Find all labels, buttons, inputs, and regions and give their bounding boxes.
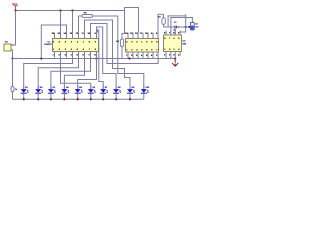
wire top link to IC2 pin12 xyxy=(125,8,139,33)
node bus D4 xyxy=(63,98,65,100)
node rail at x60 xyxy=(59,9,61,11)
node bus D9 xyxy=(129,98,131,100)
wire R4 bottom tick xyxy=(163,24,165,27)
LED D4 xyxy=(61,86,69,100)
wire junction to C2 xyxy=(186,26,191,28)
battery B1 xyxy=(4,44,13,51)
U1 pin numbers bottom outside xyxy=(53,54,97,57)
node bus D5 xyxy=(77,98,79,100)
wire rail to IC1 pin13 xyxy=(72,11,74,33)
capacitor C2 electrolytic xyxy=(190,22,194,30)
ic U3 555 xyxy=(164,31,182,59)
node VCC rail left xyxy=(14,9,16,11)
U3 pin names top inside xyxy=(164,38,180,40)
resistor R2 xyxy=(82,15,93,18)
wire R2 to LED10 feed xyxy=(93,16,144,89)
wire U1 pin9 to LED8 feed xyxy=(97,27,117,89)
LED D6 xyxy=(88,86,96,100)
wire U1 pin11 to LED9 feed xyxy=(85,20,131,89)
wire rail to IC1 pin15 xyxy=(60,11,62,33)
U1 pin names top inside xyxy=(53,41,97,44)
C2 plus mark xyxy=(188,26,190,28)
node bus D1 xyxy=(23,98,25,100)
node battery ground junction xyxy=(11,57,13,59)
wire carry stub to LED7 feed xyxy=(98,30,104,89)
LED D8 xyxy=(113,86,121,100)
LED D1 xyxy=(21,86,29,100)
node bus D8 xyxy=(115,98,117,100)
wire top link down to R3 xyxy=(122,8,125,40)
wire U1 pin6 to LED4 xyxy=(64,58,84,90)
U1 pin numbers top outside xyxy=(52,32,97,35)
U2 pin names top inside xyxy=(126,41,158,44)
wire U1 pin10 to IC2 clock link xyxy=(91,24,159,64)
wire timing loop xyxy=(168,16,186,27)
wire top-right rail xyxy=(158,13,164,15)
node C1 plus xyxy=(178,26,180,28)
ic U2 4011 xyxy=(126,33,159,59)
LED D2 xyxy=(35,86,43,100)
wire VCC drop to rail xyxy=(15,9,17,11)
wire rail corner to junction and IC3 pin5 xyxy=(180,14,186,35)
node rail at x72 xyxy=(71,9,73,11)
wire U1 pin4 to LED1 xyxy=(24,58,73,90)
wire bus down to resistor R1 xyxy=(12,59,14,87)
LED D10 xyxy=(141,86,149,100)
wire R3 bottom to ground bus xyxy=(121,47,123,59)
ic U1 CD4017 xyxy=(53,33,99,58)
U3 pin numbers bottom outside xyxy=(164,53,180,56)
LED D3 xyxy=(48,86,56,100)
wire U1 pin5 to LED2 xyxy=(38,58,78,90)
U2 pin numbers top outside xyxy=(125,32,158,35)
LED D9 xyxy=(127,86,135,100)
node bus D2 xyxy=(37,98,39,100)
wire C1 down to IC3 pin xyxy=(174,27,176,35)
node bus D3 xyxy=(50,98,52,100)
resistor R3 beside U2 xyxy=(120,39,123,47)
capacitor C1 xyxy=(175,26,177,29)
wire U1 pin8 to LED5 xyxy=(78,58,97,90)
wire U1 pin2 to LED6 xyxy=(61,58,91,90)
node bus D6 xyxy=(90,98,92,100)
wire ground bus xyxy=(13,58,176,60)
wire battery minus down xyxy=(12,51,14,59)
wire VCC down to battery xyxy=(13,11,16,46)
node bus D7 xyxy=(102,98,104,100)
wire inner rail to C2 xyxy=(171,18,193,36)
svg-text:VCC: VCC xyxy=(12,2,18,6)
node bus at x96 xyxy=(95,57,97,59)
node timing junction xyxy=(185,26,187,28)
ground xyxy=(172,59,178,67)
wire top rail xyxy=(16,10,125,12)
wire U1 pin7 to LED3 xyxy=(51,58,91,90)
U1 pin names bottom inside xyxy=(53,48,97,51)
wire U1 pin12 to resistor R2 xyxy=(79,16,83,33)
resistor R4 xyxy=(162,18,165,25)
LED D5 xyxy=(75,86,83,100)
U2 pin names bottom inside xyxy=(126,49,158,52)
node bus at IC2 pin1 xyxy=(128,57,130,59)
wire R4 top tick xyxy=(163,14,165,17)
node bus at ground xyxy=(174,57,176,59)
U2 pin numbers bottom outside xyxy=(126,54,158,57)
svg-text:CD4017: CD4017 xyxy=(44,43,52,46)
power symbol VCC xyxy=(13,6,18,9)
U3 pin names bottom inside xyxy=(164,48,180,51)
node bus at x41 xyxy=(40,57,42,59)
resistor R1 xyxy=(11,87,14,92)
wire C1 row xyxy=(164,26,186,28)
wire bottom cathode bus xyxy=(13,98,144,100)
wire rail riser xyxy=(124,8,126,11)
LED D7 xyxy=(100,86,108,100)
wire U1 pin14 reset to ground bus xyxy=(41,25,66,59)
wire U2 pin8 riser xyxy=(157,14,159,32)
wire R1 to bottom bus xyxy=(12,92,14,100)
U3 pin numbers top outside xyxy=(164,32,180,34)
